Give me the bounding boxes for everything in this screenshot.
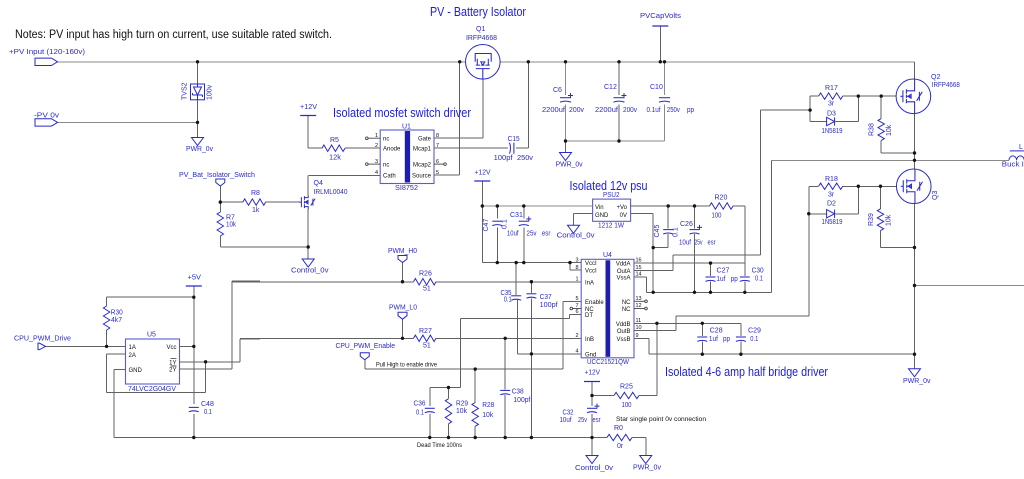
svg-text:0.1: 0.1 xyxy=(750,336,758,343)
svg-text:DT: DT xyxy=(585,313,593,319)
svg-text:R25: R25 xyxy=(620,384,633,391)
svg-text:OutB: OutB xyxy=(617,329,631,335)
svg-text:Cath: Cath xyxy=(383,174,396,180)
svg-text:U1: U1 xyxy=(402,124,411,131)
svg-text:PWR_0v: PWR_0v xyxy=(903,378,931,385)
svg-text:51: 51 xyxy=(423,286,431,293)
svg-text:10uf: 10uf xyxy=(507,231,519,238)
svg-text:+5V: +5V xyxy=(188,275,202,282)
svg-text:OutA: OutA xyxy=(617,269,631,275)
svg-text:IRFP4668: IRFP4668 xyxy=(466,35,497,42)
svg-text:10k: 10k xyxy=(456,408,467,415)
svg-text:5: 5 xyxy=(436,170,439,176)
svg-text:GND: GND xyxy=(129,368,143,374)
svg-text:14: 14 xyxy=(636,272,642,278)
svg-text:3: 3 xyxy=(575,258,578,264)
svg-text:-PV 0v: -PV 0v xyxy=(34,113,60,120)
svg-text:1: 1 xyxy=(575,277,578,283)
svg-text:200v: 200v xyxy=(623,107,637,114)
svg-text:VssA: VssA xyxy=(616,276,630,282)
svg-text:Buck I: Buck I xyxy=(1002,162,1024,169)
svg-text:0.1: 0.1 xyxy=(416,410,424,417)
svg-text:IRLML0040: IRLML0040 xyxy=(314,189,348,196)
svg-text:D2: D2 xyxy=(827,201,836,208)
svg-text:15: 15 xyxy=(636,265,642,271)
svg-text:10uf: 10uf xyxy=(679,240,691,247)
svg-text:C36: C36 xyxy=(414,401,426,408)
svg-text:7: 7 xyxy=(436,143,439,149)
svg-text:Control_0v: Control_0v xyxy=(291,268,329,275)
svg-text:C6: C6 xyxy=(553,87,562,94)
svg-text:C15: C15 xyxy=(508,136,520,143)
svg-text:C30: C30 xyxy=(752,268,764,275)
svg-text:10k: 10k xyxy=(226,222,236,229)
svg-text:1N5819: 1N5819 xyxy=(822,128,843,135)
svg-text:0.1uf: 0.1uf xyxy=(647,107,661,114)
svg-text:3r: 3r xyxy=(828,192,835,199)
svg-text:Q2: Q2 xyxy=(931,74,940,81)
svg-text:1N5819: 1N5819 xyxy=(822,219,843,226)
svg-text:R38: R38 xyxy=(869,123,876,136)
svg-text:Vcc: Vcc xyxy=(166,345,176,351)
svg-text:100pf: 100pf xyxy=(513,397,530,404)
svg-text:R28: R28 xyxy=(482,402,494,409)
svg-text:R30: R30 xyxy=(111,310,123,317)
svg-text:4k7: 4k7 xyxy=(111,317,122,324)
svg-text:pp: pp xyxy=(687,107,694,114)
svg-text:PWM_L0: PWM_L0 xyxy=(389,305,417,312)
svg-text:8: 8 xyxy=(436,133,439,139)
svg-text:R5: R5 xyxy=(330,137,339,144)
svg-text:0.1: 0.1 xyxy=(502,219,509,229)
svg-text:pp: pp xyxy=(723,336,730,343)
svg-text:C38: C38 xyxy=(512,389,524,396)
svg-text:12k: 12k xyxy=(329,155,342,162)
svg-text:NC: NC xyxy=(622,307,631,313)
svg-text:PV - Battery Isolator: PV - Battery Isolator xyxy=(430,5,526,19)
svg-text:0.1: 0.1 xyxy=(204,409,212,416)
svg-text:C32: C32 xyxy=(563,410,574,417)
svg-text:1k: 1k xyxy=(252,207,260,214)
svg-text:PV_Bat_Isolator_Switch: PV_Bat_Isolator_Switch xyxy=(179,172,255,179)
svg-text:Notes: PV input has high turn: Notes: PV input has high turn on current… xyxy=(15,29,332,41)
svg-text:9: 9 xyxy=(636,333,639,339)
svg-text:1uf: 1uf xyxy=(716,276,725,283)
svg-text:Mcap2: Mcap2 xyxy=(413,163,432,169)
svg-text:U5: U5 xyxy=(147,332,156,339)
svg-text:C29: C29 xyxy=(748,328,761,335)
svg-text:0r: 0r xyxy=(617,443,624,450)
svg-text:Q3: Q3 xyxy=(932,191,939,200)
svg-text:C12: C12 xyxy=(604,84,617,91)
svg-text:10: 10 xyxy=(636,325,642,331)
svg-text:R29: R29 xyxy=(456,401,468,408)
svg-text:Vin: Vin xyxy=(595,205,604,211)
svg-text:Isolated mosfet switch driver: Isolated mosfet switch driver xyxy=(333,106,471,120)
svg-text:Mcap1: Mcap1 xyxy=(413,147,432,153)
svg-text:pp: pp xyxy=(731,276,738,283)
svg-text:PSU2: PSU2 xyxy=(603,192,620,199)
svg-text:Star single point 0v connectio: Star single point 0v connection xyxy=(616,416,706,423)
svg-text:Dead Time 100ns: Dead Time 100ns xyxy=(417,442,463,449)
svg-text:UCC21521QW: UCC21521QW xyxy=(587,359,629,366)
svg-text:C37: C37 xyxy=(540,294,552,301)
svg-text:25v: 25v xyxy=(578,417,587,424)
svg-text:L: L xyxy=(1019,144,1023,151)
svg-text:13: 13 xyxy=(636,296,642,302)
svg-text:VssB: VssB xyxy=(616,337,630,343)
svg-text:InB: InB xyxy=(585,337,594,343)
svg-text:74LVC2G04GV: 74LVC2G04GV xyxy=(128,386,176,393)
svg-text:Gate: Gate xyxy=(418,137,432,143)
svg-text:C27: C27 xyxy=(717,268,730,275)
svg-text:Pull High to enable drive: Pull High to enable drive xyxy=(376,362,437,369)
svg-text:10uf: 10uf xyxy=(560,417,572,424)
svg-text:Enable: Enable xyxy=(585,300,604,306)
svg-text:2: 2 xyxy=(375,143,378,149)
svg-text:0.1: 0.1 xyxy=(673,227,680,237)
svg-text:Isolated 12v psu: Isolated 12v psu xyxy=(570,179,648,193)
svg-text:100pf: 100pf xyxy=(540,302,558,309)
svg-text:VddB: VddB xyxy=(616,322,631,328)
svg-text:+PV Input (120-160v): +PV Input (120-160v) xyxy=(9,49,85,56)
svg-text:2: 2 xyxy=(575,333,578,339)
svg-text:R27: R27 xyxy=(419,328,432,335)
svg-text:4: 4 xyxy=(575,348,578,354)
svg-text:PWR_0v: PWR_0v xyxy=(633,465,661,472)
svg-text:R8: R8 xyxy=(251,190,260,197)
svg-text:R17: R17 xyxy=(825,85,838,92)
svg-text:Gnd: Gnd xyxy=(585,352,596,358)
svg-text:Q1: Q1 xyxy=(476,26,485,33)
svg-text:nc: nc xyxy=(383,163,389,169)
svg-text:Control_0v: Control_0v xyxy=(575,465,614,472)
svg-text:3: 3 xyxy=(375,159,378,165)
svg-text:C47: C47 xyxy=(483,219,490,232)
svg-text:R26: R26 xyxy=(419,271,432,278)
svg-text:R0: R0 xyxy=(614,425,623,432)
svg-text:5: 5 xyxy=(575,296,578,302)
svg-text:esr: esr xyxy=(708,240,717,247)
svg-text:2A: 2A xyxy=(129,353,136,359)
svg-text:100v: 100v xyxy=(207,84,214,100)
svg-text:nc: nc xyxy=(383,137,389,143)
svg-text:PWR_0v: PWR_0v xyxy=(186,146,213,153)
svg-text:0.1: 0.1 xyxy=(755,276,763,283)
svg-text:D3: D3 xyxy=(827,111,836,118)
svg-text:TVS2: TVS2 xyxy=(182,82,189,100)
svg-text:GND: GND xyxy=(595,213,609,219)
svg-text:12: 12 xyxy=(636,303,642,309)
svg-text:+12V: +12V xyxy=(585,370,601,377)
svg-text:100: 100 xyxy=(712,213,722,220)
svg-text:VddA: VddA xyxy=(616,262,631,268)
svg-text:10k: 10k xyxy=(886,214,893,226)
svg-text:200v: 200v xyxy=(569,107,584,114)
svg-text:+12V: +12V xyxy=(300,104,317,111)
svg-text:Source: Source xyxy=(412,174,432,180)
svg-text:CPU_PWM_Enable: CPU_PWM_Enable xyxy=(336,343,396,350)
svg-text:6: 6 xyxy=(436,159,439,165)
svg-text:C26: C26 xyxy=(680,221,693,228)
svg-text:R20: R20 xyxy=(715,195,728,202)
svg-text:8: 8 xyxy=(575,265,578,271)
svg-text:0V: 0V xyxy=(620,213,627,219)
svg-text:1Y: 1Y xyxy=(169,360,176,366)
svg-text:1: 1 xyxy=(375,133,378,139)
svg-text:R39: R39 xyxy=(868,213,875,226)
svg-text:R18: R18 xyxy=(825,176,838,183)
svg-text:100: 100 xyxy=(622,402,632,409)
svg-text:PWR_0v: PWR_0v xyxy=(556,162,583,169)
svg-text:10k: 10k xyxy=(886,124,893,136)
svg-text:VccI: VccI xyxy=(585,269,597,275)
svg-text:+12V: +12V xyxy=(475,170,491,177)
svg-text:C31: C31 xyxy=(510,212,523,219)
svg-text:Isolated 4-6 amp half bridge d: Isolated 4-6 amp half bridge driver xyxy=(665,365,828,379)
svg-text:C45: C45 xyxy=(654,225,661,238)
svg-text:51: 51 xyxy=(423,343,431,350)
svg-text:Q4: Q4 xyxy=(314,180,323,187)
svg-text:IRFP4668: IRFP4668 xyxy=(932,82,960,89)
svg-text:11: 11 xyxy=(636,318,642,324)
svg-text:25v: 25v xyxy=(527,231,537,238)
svg-text:10k: 10k xyxy=(482,412,493,419)
svg-text:NC: NC xyxy=(622,300,631,306)
svg-text:250v: 250v xyxy=(517,155,534,162)
svg-text:esr: esr xyxy=(593,417,602,424)
svg-text:C28: C28 xyxy=(710,328,723,335)
svg-text:4: 4 xyxy=(375,170,378,176)
svg-text:3r: 3r xyxy=(828,101,835,108)
svg-text:C10: C10 xyxy=(650,84,663,91)
svg-text:PVCapVolts: PVCapVolts xyxy=(640,13,682,20)
svg-text:SI8752: SI8752 xyxy=(395,185,418,192)
svg-text:Anode: Anode xyxy=(383,147,401,153)
svg-text:0.1: 0.1 xyxy=(504,297,512,304)
svg-text:VccI: VccI xyxy=(585,261,597,267)
svg-text:1uf: 1uf xyxy=(709,336,718,343)
svg-text:250v: 250v xyxy=(667,107,680,114)
svg-text:6: 6 xyxy=(575,309,578,315)
svg-text:1212 1W: 1212 1W xyxy=(598,223,624,230)
svg-text:25v: 25v xyxy=(695,240,703,247)
svg-text:U4: U4 xyxy=(603,252,612,259)
svg-text:2200uf: 2200uf xyxy=(542,107,565,114)
svg-text:C48: C48 xyxy=(201,401,214,408)
svg-text:+Vo: +Vo xyxy=(616,205,627,211)
svg-text:R7: R7 xyxy=(226,215,235,222)
svg-text:PWM_H0: PWM_H0 xyxy=(388,248,417,255)
svg-text:CPU_PWM_Drive: CPU_PWM_Drive xyxy=(14,336,71,343)
svg-text:2Y: 2Y xyxy=(169,368,176,374)
svg-text:esr: esr xyxy=(542,231,551,238)
svg-text:1A: 1A xyxy=(129,345,136,351)
svg-text:16: 16 xyxy=(636,258,642,264)
svg-text:Control_0v: Control_0v xyxy=(557,233,596,240)
svg-text:2200uf: 2200uf xyxy=(595,107,618,114)
svg-text:100pf: 100pf xyxy=(494,155,513,162)
svg-text:InA: InA xyxy=(585,281,594,287)
